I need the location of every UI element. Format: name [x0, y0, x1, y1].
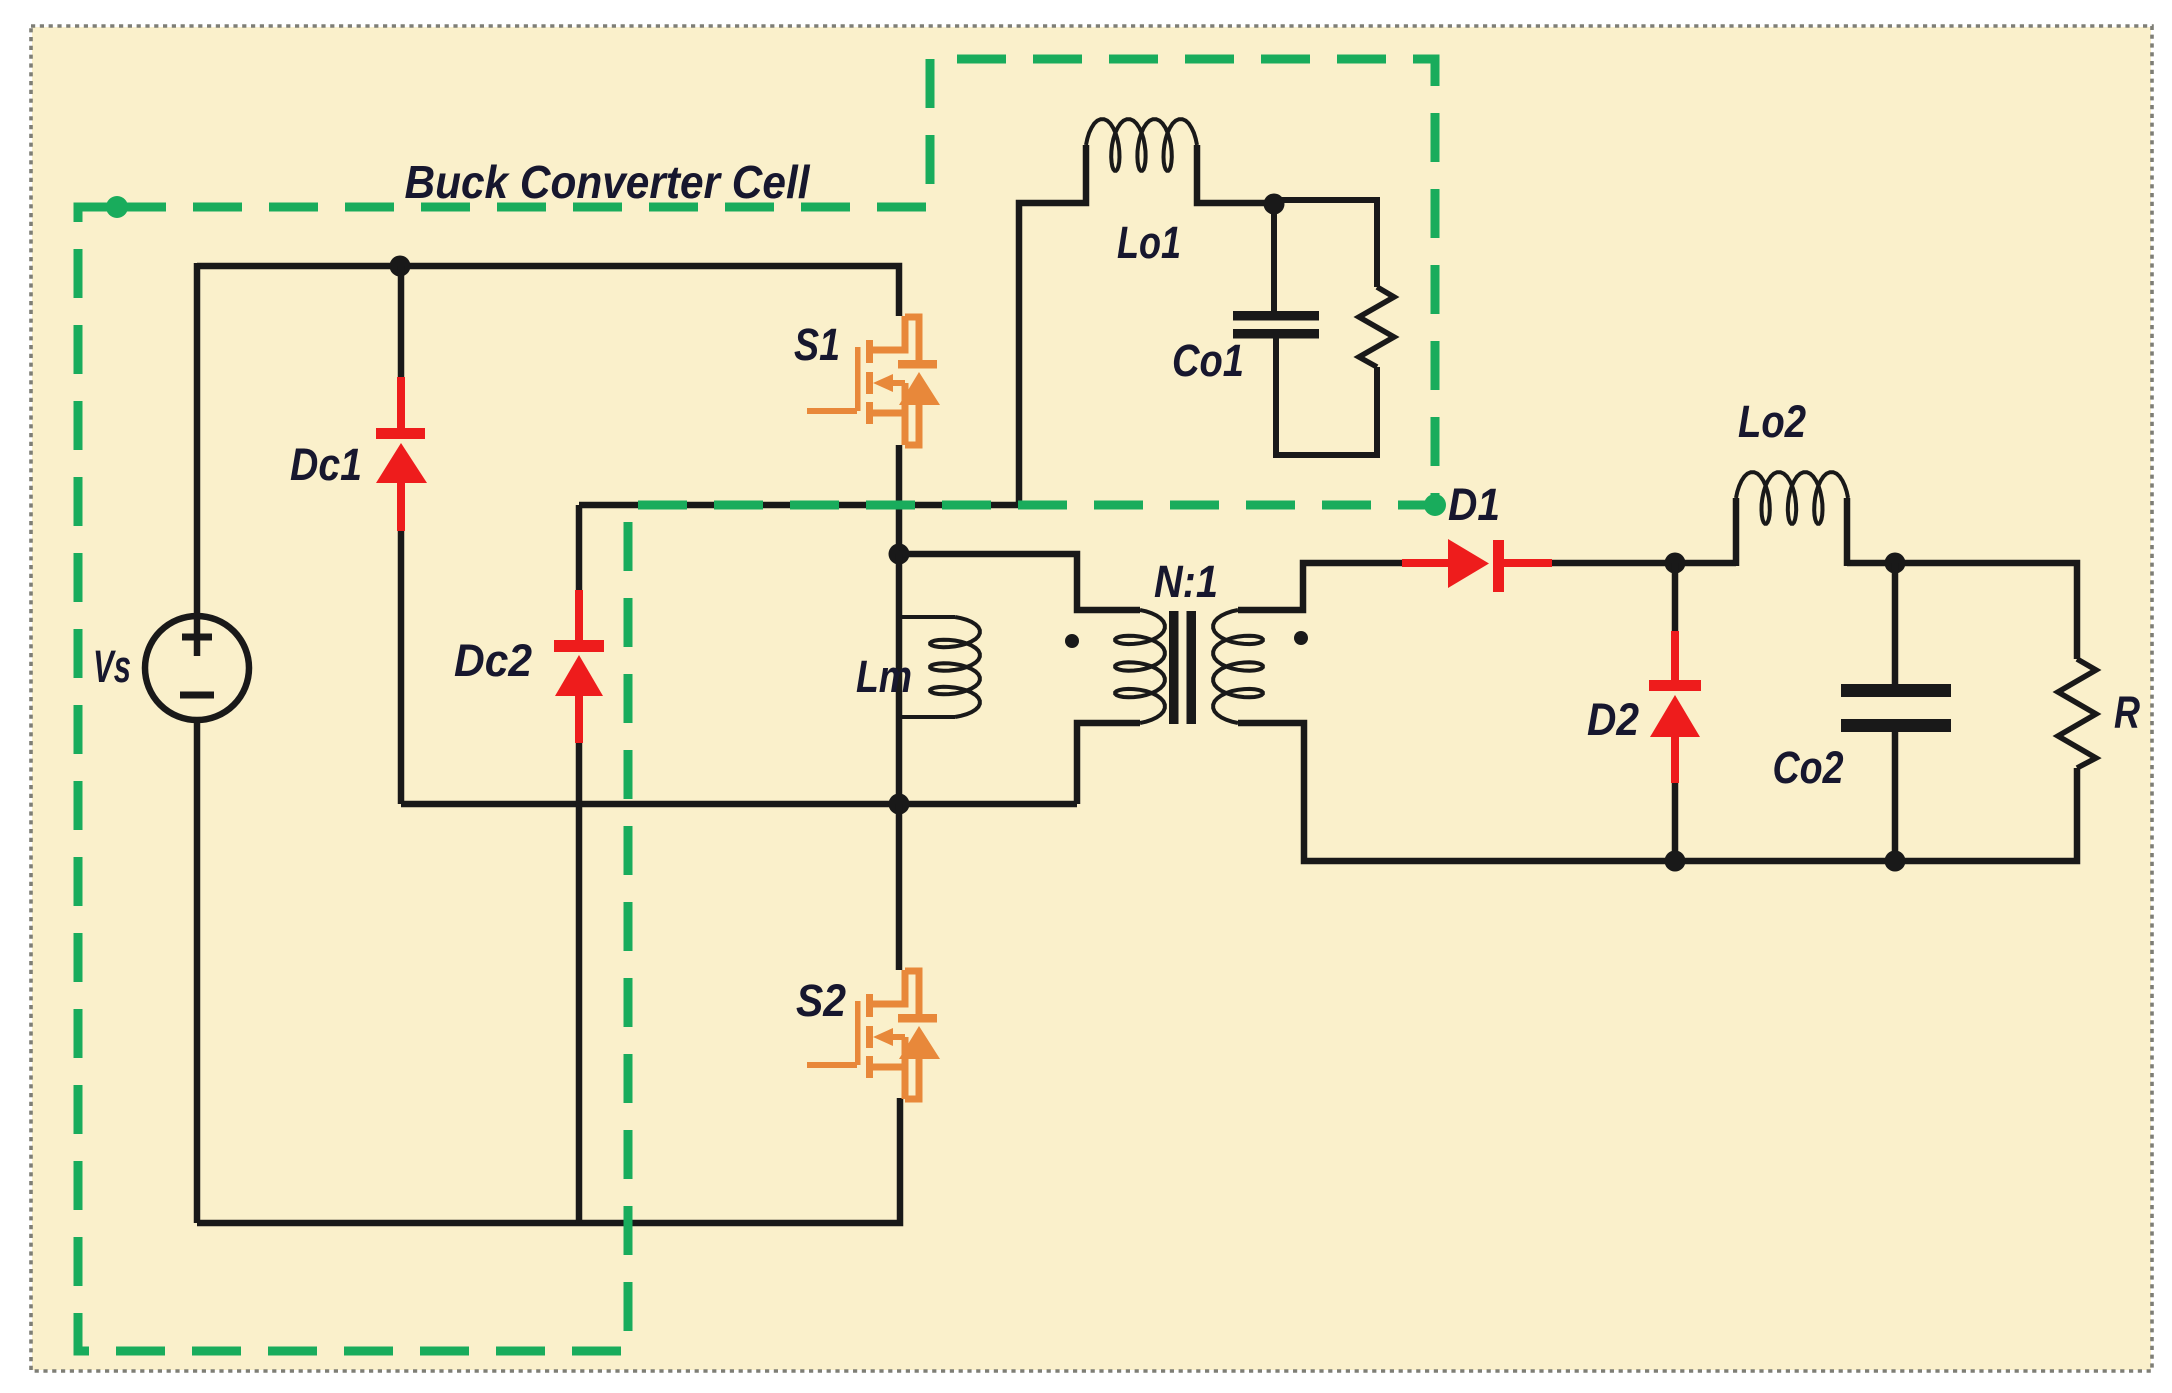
wire: Lo2 left riser [1733, 498, 1740, 566]
diode D2 [1649, 563, 1701, 861]
wire: Vs bottom lead [194, 720, 201, 1223]
svg-text:D2: D2 [1587, 694, 1639, 745]
diode Dc1 [376, 266, 427, 804]
transformer T1 secondary winding [1213, 610, 1263, 723]
transformer polarity dot (secondary) [1294, 631, 1308, 645]
wire: top rail from Vs+ to S1 drain [197, 266, 899, 316]
svg-text:Co2: Co2 [1773, 742, 1844, 793]
inductor Lo1 [1086, 119, 1197, 171]
resistor R [2058, 659, 2096, 768]
green outline endpoint dot (top-left) [106, 196, 128, 218]
wire: Co1 block outline [1274, 200, 1377, 455]
wire: S1 source to Lm node [896, 445, 903, 554]
svg-text:S1: S1 [794, 319, 840, 370]
buck converter cell dashed outline [78, 59, 1435, 1351]
capacitor Co2 [1841, 563, 1951, 861]
node: top rail junction [390, 256, 411, 277]
wire: Lo1 left lead [1019, 145, 1086, 505]
capacitor Co1 [1233, 311, 1319, 321]
diode D1 [1402, 539, 1552, 592]
svg-text:N:1: N:1 [1154, 556, 1218, 607]
node: D1/D2/Lo2 junction [1665, 553, 1686, 574]
transistor S1 (MOSFET) [807, 316, 940, 445]
svg-text:D1: D1 [1448, 479, 1500, 530]
inductor Lm [899, 617, 980, 717]
node: Co2 bottom junction [1885, 851, 1906, 872]
node: Lm bottom / S2 drain junction [889, 794, 910, 815]
wire: D1 cathode to R top corner [1552, 563, 2077, 659]
transformer T1 primary winding [1115, 610, 1165, 723]
svg-text:R: R [2114, 687, 2140, 738]
diode Dc2 [554, 505, 604, 1223]
svg-text:Co1: Co1 [1172, 335, 1244, 386]
wire: S2 drain lead [896, 804, 903, 970]
transformer T1 core [1169, 611, 1179, 724]
green outline endpoint dot (at D1) [1424, 494, 1446, 516]
wire: primary bottom lead [1077, 723, 1140, 804]
wire: Lm vertical bus [896, 554, 903, 804]
inductor Lo2 [1736, 472, 1848, 524]
wire: mid rail y=804 from Dc1 to transformer primary bottom [401, 801, 1077, 808]
svg-text:Lo2: Lo2 [1738, 396, 1806, 447]
svg-text:Lo1: Lo1 [1117, 217, 1181, 268]
svg-text:Lm: Lm [856, 651, 912, 702]
wire: secondary bottom rail [1238, 723, 2077, 861]
wire: Lo2 right riser [1844, 498, 1851, 566]
node: D2 bottom junction [1665, 851, 1686, 872]
voltage source Vs [145, 616, 249, 720]
wire: node to transformer primary top [899, 554, 1140, 610]
wire: Vs top lead [194, 263, 201, 656]
svg-text:Buck Converter Cell: Buck Converter Cell [405, 156, 811, 208]
svg-text:Dc2: Dc2 [454, 635, 532, 686]
node: Lo1 / Co1 junction [1264, 194, 1285, 215]
transformer polarity dot (primary) [1065, 634, 1079, 648]
svg-text:Vs: Vs [93, 641, 131, 692]
node: S1 source / Lm / primary top junction [889, 544, 910, 565]
node: Lo2/Co2 junction [1885, 553, 1906, 574]
wire: Lo1 right lead [1197, 145, 1274, 203]
wire: bottom rail to S2 source [197, 1098, 900, 1223]
resistor (load of buck cell) [1359, 287, 1394, 367]
wire: Dc2 top to Lo1 branch (y=505) [579, 502, 1019, 509]
svg-text:Dc1: Dc1 [290, 439, 362, 490]
svg-text:S2: S2 [796, 975, 846, 1026]
wire: secondary top to D1 [1238, 563, 1402, 610]
transistor S2 (MOSFET) [807, 970, 940, 1099]
